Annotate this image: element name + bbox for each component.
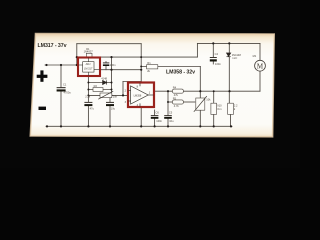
svg-text:M: M <box>257 62 264 70</box>
svg-text:C5: C5 <box>169 111 173 115</box>
svg-text:LM317 - 37v: LM317 - 37v <box>38 43 67 49</box>
svg-text:LED: LED <box>232 56 237 60</box>
svg-text:4700u: 4700u <box>64 91 72 95</box>
svg-text:100n: 100n <box>110 63 116 67</box>
svg-text:10k: 10k <box>206 98 211 102</box>
svg-text:4.7k: 4.7k <box>174 104 180 108</box>
svg-text:100n: 100n <box>215 62 221 66</box>
svg-text:R4: R4 <box>173 86 177 90</box>
svg-text:10u: 10u <box>111 106 116 110</box>
svg-text:ADJ: ADJ <box>86 63 91 66</box>
svg-text:C1: C1 <box>63 82 67 86</box>
svg-text:C4: C4 <box>215 52 219 56</box>
svg-text:LM358 - 32v: LM358 - 32v <box>166 70 195 76</box>
svg-text:LM 317: LM 317 <box>84 67 93 70</box>
svg-text:4148: 4148 <box>101 77 107 81</box>
svg-text:R5: R5 <box>173 96 177 100</box>
svg-text:R1: R1 <box>147 61 151 65</box>
svg-text:100n: 100n <box>156 119 162 123</box>
svg-text:M1: M1 <box>253 54 257 58</box>
svg-text:1N4007: 1N4007 <box>84 50 94 54</box>
svg-text:10u: 10u <box>169 119 174 123</box>
svg-text:R2: R2 <box>94 84 98 88</box>
svg-text:47u: 47u <box>90 106 95 110</box>
svg-text:LM358: LM358 <box>134 94 142 97</box>
svg-text:2.2k: 2.2k <box>85 95 91 99</box>
svg-text:Om: Om <box>217 107 221 111</box>
svg-text:C6: C6 <box>156 111 160 115</box>
svg-text:10k: 10k <box>113 94 118 98</box>
